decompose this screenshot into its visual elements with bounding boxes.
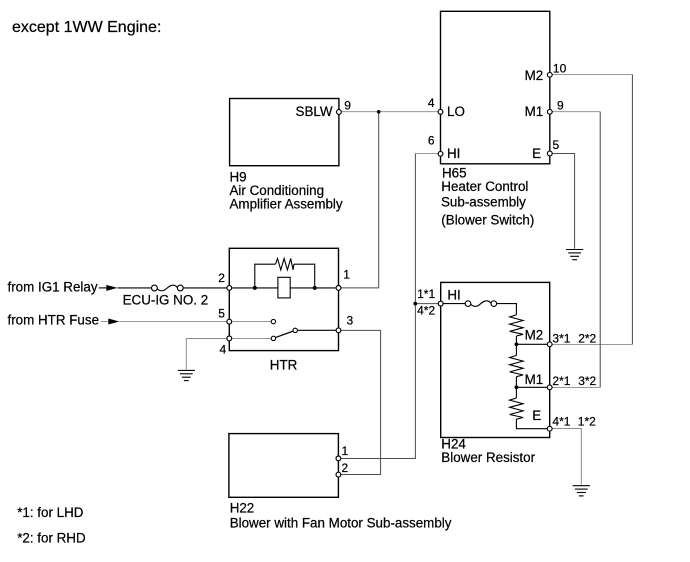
pin circle E (H24) xyxy=(547,426,552,431)
svg-text:M2: M2 xyxy=(525,68,544,83)
svg-text:M1: M1 xyxy=(525,104,544,119)
resistor zigzag HTR xyxy=(276,259,294,270)
wire M1 junction to M1 pin xyxy=(516,386,549,388)
svg-text:*1: for LHD: *1: for LHD xyxy=(17,505,84,520)
box HTR relay xyxy=(229,248,338,350)
wire to E pin (H24) xyxy=(516,419,549,429)
svg-text:Blower with Fan Motor Sub-asse: Blower with Fan Motor Sub-assembly xyxy=(230,516,452,531)
wire HTR pin4 stub xyxy=(229,338,271,340)
svg-text:Sub-assembly: Sub-assembly xyxy=(441,194,526,209)
box H65 Heater Control Sub-assembly xyxy=(441,11,550,164)
svg-text:10: 10 xyxy=(553,62,567,76)
pin circle 2 (H22) xyxy=(336,472,341,477)
pin circle 1 (HTR) xyxy=(336,286,341,291)
wire HTR pin3 to H22 pin2 xyxy=(338,330,380,474)
pin circle HI (H24) xyxy=(438,301,443,306)
wire M2 junction down xyxy=(515,344,517,355)
wire H24 M2 stub xyxy=(550,344,633,346)
wire arrow to fuse xyxy=(118,287,152,289)
ground symbol HTR pin4 xyxy=(178,370,195,380)
wire thermal fuse to resistor chain xyxy=(497,304,517,315)
pin circle M1 (H24) xyxy=(547,385,552,390)
pin circle 2 (HTR) xyxy=(227,286,232,291)
wire H65 E to ground xyxy=(550,154,575,249)
svg-text:6: 6 xyxy=(428,133,435,147)
svg-text:Heater Control: Heater Control xyxy=(441,179,528,194)
svg-text:LO: LO xyxy=(447,104,465,119)
wire M1 vertical xyxy=(599,112,601,388)
svg-text:4: 4 xyxy=(428,96,435,110)
pin circle M2 (H65) xyxy=(547,72,552,77)
svg-text:9: 9 xyxy=(344,98,351,112)
svg-text:(Blower Switch): (Blower Switch) xyxy=(441,212,534,227)
switch contact circle pin5 (HTR) xyxy=(271,319,275,323)
svg-text:1: 1 xyxy=(343,268,350,282)
svg-text:9: 9 xyxy=(557,99,564,113)
box H9 Air Conditioning Amplifier Assembly xyxy=(230,99,339,166)
svg-text:1*1: 1*1 xyxy=(417,287,435,301)
wire HTR pin4 to ground xyxy=(186,339,229,370)
wire H65 M2 stub xyxy=(550,74,633,76)
pin circle LO (H65) xyxy=(438,109,443,114)
switch contact circle pin4 (HTR) xyxy=(271,336,275,340)
arrow from IG1 Relay xyxy=(106,285,117,291)
wire to M2 junction xyxy=(515,336,517,344)
svg-text:4: 4 xyxy=(220,343,227,357)
svg-text:2*2: 2*2 xyxy=(578,332,596,346)
svg-text:2: 2 xyxy=(342,461,349,475)
wire H65 M1 stub xyxy=(550,111,600,113)
pin circle M1 (H65) xyxy=(547,109,552,114)
thermal fuse H24 xyxy=(465,301,496,307)
wire blade to pin3 xyxy=(297,329,338,331)
svg-text:ECU-IG NO. 2: ECU-IG NO. 2 xyxy=(123,293,209,308)
node junction dot SBLW line xyxy=(377,110,381,114)
svg-text:4*2: 4*2 xyxy=(417,304,435,318)
relay coil rectangle HTR xyxy=(278,277,290,298)
wire junction to H24 HI xyxy=(415,303,440,305)
svg-text:3*2: 3*2 xyxy=(578,374,596,388)
resistor branch risers HTR xyxy=(255,264,276,288)
wire M2 vertical xyxy=(631,75,633,345)
fuse ECU-IG NO. 2 xyxy=(152,285,184,291)
svg-text:Amplifier Assembly: Amplifier Assembly xyxy=(230,197,343,212)
switch blade HTR xyxy=(275,331,293,338)
wire H24 HI stub inside xyxy=(441,303,466,305)
wire junction to HTR pin1 xyxy=(339,112,379,288)
svg-text:M2: M2 xyxy=(525,327,544,342)
node dot right (HTR) xyxy=(313,286,317,290)
node dot left (HTR) xyxy=(253,286,257,290)
pin circle 1 (H22) xyxy=(336,456,341,461)
svg-text:E: E xyxy=(532,408,541,423)
svg-text:1: 1 xyxy=(342,444,349,458)
svg-text:Blower Resistor: Blower Resistor xyxy=(441,450,535,465)
pin circle 9 (H9) xyxy=(337,110,342,115)
svg-text:from IG1 Relay: from IG1 Relay xyxy=(8,280,98,295)
svg-text:3: 3 xyxy=(347,313,354,327)
pin circle M2 (H24) xyxy=(547,342,552,347)
wire H24 M1 stub xyxy=(550,387,601,389)
resistor R-M1 zigzag (H24) xyxy=(510,355,523,376)
svg-text:Air Conditioning: Air Conditioning xyxy=(230,183,325,198)
switch blade circle (HTR) xyxy=(293,328,297,332)
svg-text:2*1: 2*1 xyxy=(552,374,570,388)
ground symbol below H65 E xyxy=(566,250,583,260)
svg-text:2: 2 xyxy=(218,271,225,285)
svg-text:5: 5 xyxy=(218,306,225,320)
svg-text:HI: HI xyxy=(447,288,460,303)
svg-text:H22: H22 xyxy=(230,501,255,516)
svg-text:E: E xyxy=(532,146,541,161)
pin circle 3 (HTR) xyxy=(336,328,341,333)
wire fuse to HTR pin2 xyxy=(183,287,229,289)
ground symbol H24 E xyxy=(573,486,590,496)
svg-text:except 1WW Engine:: except 1WW Engine: xyxy=(12,19,161,36)
wire HTR pin5 stub xyxy=(229,321,271,323)
pin circle E (H65) xyxy=(547,151,552,156)
arrow from HTR Fuse xyxy=(108,319,119,325)
wire HI net vertical to H22 pin1 xyxy=(338,154,415,459)
svg-text:4*1: 4*1 xyxy=(552,415,570,429)
svg-text:5: 5 xyxy=(553,138,560,152)
node dot M2 (H24) xyxy=(515,342,519,346)
wire to M1 junction xyxy=(515,377,517,388)
svg-text:SBLW: SBLW xyxy=(296,104,333,119)
wire M2 junction to M2 pin xyxy=(516,343,549,345)
pin circle 4 (HTR) xyxy=(227,336,232,341)
svg-text:HTR: HTR xyxy=(270,358,298,373)
node junction dot HI net xyxy=(413,302,417,306)
resistor R-E zigzag (H24) xyxy=(510,398,523,419)
box H22 Blower with Fan Motor xyxy=(229,434,339,498)
svg-text:*2: for RHD: *2: for RHD xyxy=(17,531,86,546)
pin circle HI (H65) xyxy=(438,151,443,156)
wire SBLW to LO xyxy=(339,111,438,113)
resistor R-M2 zigzag (H24) xyxy=(510,315,523,336)
svg-text:1*2: 1*2 xyxy=(578,415,596,429)
wire H24 E to ground xyxy=(550,429,582,485)
wire HTR coil main xyxy=(229,287,338,289)
svg-text:from HTR Fuse: from HTR Fuse xyxy=(8,313,100,328)
box H24 Blower Resistor xyxy=(441,282,550,437)
wire M1 junction down xyxy=(515,387,517,398)
wire arrow to HTR pin5 xyxy=(119,321,229,323)
svg-text:M1: M1 xyxy=(525,372,544,387)
wire from HTR Fuse feed xyxy=(101,321,109,323)
wire H65 HI stub xyxy=(415,153,440,155)
svg-text:3*1: 3*1 xyxy=(552,332,570,346)
wire from IG1 Relay feed xyxy=(99,287,107,289)
svg-text:HI: HI xyxy=(447,146,460,161)
node dot M1 (H24) xyxy=(515,385,519,389)
pin circle 5 (HTR) xyxy=(227,319,232,324)
